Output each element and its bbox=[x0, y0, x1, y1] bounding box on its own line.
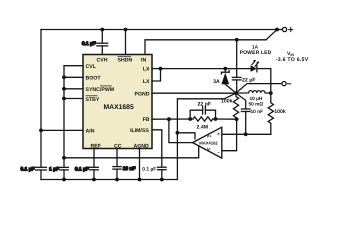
svg-text:V-: V- bbox=[207, 146, 212, 151]
wire LX line bbox=[152, 68, 251, 70]
capacitor 1uF on bus bbox=[60, 167, 69, 179]
svg-text:PGND: PGND bbox=[135, 91, 150, 97]
svg-text:+: + bbox=[217, 132, 220, 138]
label + at terminal bbox=[289, 28, 293, 32]
junction ILIM cap to rail bbox=[160, 178, 164, 182]
wire bottom ground rail bbox=[41, 179, 177, 181]
capacitor C1 0.1uF at CVH bbox=[97, 30, 108, 55]
svg-text:CVL: CVL bbox=[86, 64, 97, 70]
junction on top rail at SHDN bbox=[124, 28, 128, 32]
svg-text:0.1 µF: 0.1 µF bbox=[21, 167, 35, 173]
wire diagonal to VIN+ terminal bbox=[266, 30, 277, 40]
svg-text:22 pF: 22 pF bbox=[198, 102, 212, 108]
svg-text:SYNC/PWM: SYNC/PWM bbox=[86, 87, 115, 93]
svg-text:0.1 µF: 0.1 µF bbox=[82, 41, 96, 47]
svg-text:MAX1685: MAX1685 bbox=[104, 104, 134, 111]
junction bus to rail bbox=[62, 178, 66, 182]
wire REF pin drop bbox=[93, 149, 95, 167]
svg-text:2.4M: 2.4M bbox=[197, 124, 209, 130]
inductor L1 10uH bbox=[236, 91, 271, 94]
junction op-amp V+ tap bbox=[176, 131, 180, 135]
IC U1 MAX1685 body bbox=[83, 55, 152, 149]
svg-text:-3.6 TO 6.5V: -3.6 TO 6.5V bbox=[276, 57, 309, 63]
wire op-amp + input line bbox=[222, 133, 271, 135]
capacitor 10nF at CC bbox=[113, 167, 121, 180]
wire top rail bbox=[41, 29, 277, 31]
svg-text:1 µF: 1 µF bbox=[49, 167, 59, 173]
svg-text:REF: REF bbox=[91, 143, 101, 149]
resistor R2 2.4M bbox=[193, 117, 213, 121]
junction 2.4M right bbox=[214, 117, 218, 121]
wire ground line from node X to rail bbox=[177, 93, 236, 179]
junction AGND to rail bbox=[138, 178, 142, 182]
svg-text:50 mΩ: 50 mΩ bbox=[249, 102, 264, 108]
junction at VIN+ terminal bbox=[275, 28, 279, 32]
capacitor C3 10nF sense bbox=[236, 93, 250, 134]
svg-text:10 nF: 10 nF bbox=[123, 166, 136, 172]
junction IN rail / VIN drop bbox=[235, 38, 239, 42]
resistor R1 100k (left) bbox=[233, 93, 238, 119]
wire op-amp V- supply stub and REF line bbox=[64, 146, 199, 158]
wire VIN drop to 22uF bbox=[236, 40, 238, 77]
wire op-amp - input line bbox=[222, 119, 237, 151]
wire SHDN to top rail bbox=[125, 30, 127, 55]
svg-text:FB: FB bbox=[143, 117, 150, 123]
svg-text:IN: IN bbox=[141, 58, 146, 64]
svg-text:AGND: AGND bbox=[134, 143, 150, 149]
svg-text:SHDN: SHDN bbox=[118, 58, 133, 64]
wire op-amp V+ supply stub bbox=[177, 133, 195, 139]
svg-text:0.1 µF: 0.1 µF bbox=[142, 167, 156, 173]
LED emission arrows bbox=[252, 60, 259, 67]
svg-text:CVH: CVH bbox=[97, 58, 108, 64]
junction AIN at left loop bbox=[39, 129, 43, 133]
wire LX2 loop bbox=[152, 69, 161, 81]
diode D1 3A Schottky bbox=[221, 69, 236, 94]
junction REF bus bbox=[62, 156, 66, 160]
capacitor 0.1uF at ILIM/SS bbox=[158, 167, 167, 179]
svg-text:0.1 µF: 0.1 µF bbox=[75, 167, 89, 173]
node X ground node bbox=[234, 91, 238, 95]
terminal OUT- bbox=[282, 82, 286, 86]
svg-text:LX: LX bbox=[143, 79, 150, 85]
svg-text:MAX4162: MAX4162 bbox=[199, 140, 218, 145]
svg-text:POWER LED: POWER LED bbox=[240, 50, 272, 56]
svg-text:100k: 100k bbox=[274, 109, 286, 115]
junction REF cap to rail bbox=[92, 178, 96, 182]
wire ILIM/SS to bypass cap bbox=[152, 130, 162, 167]
capacitor 0.1uF at REF bbox=[90, 167, 99, 179]
wire FB line bbox=[152, 118, 193, 120]
junction diode at LX bbox=[223, 67, 227, 71]
terminal VIN+ bbox=[279, 29, 282, 31]
wire left pin bus CVL/BOOT/SYNC/STBY bbox=[64, 66, 83, 167]
junction 10nF bottom bbox=[244, 132, 248, 136]
label - at terminal bbox=[288, 83, 291, 85]
capacitor 0.1uF in left loop bbox=[36, 167, 47, 179]
junction CC cap to rail bbox=[115, 178, 119, 182]
junction FB to op-amp output riser bbox=[167, 117, 171, 121]
svg-text:ILIM/SS: ILIM/SS bbox=[130, 128, 149, 134]
wire op-amp output to FB bbox=[169, 119, 193, 142]
wire SYNC/PWM stub bbox=[64, 88, 83, 90]
wire left loop vertical bbox=[40, 30, 42, 167]
svg-text:LX: LX bbox=[143, 67, 150, 73]
svg-text:CC: CC bbox=[114, 143, 122, 149]
LED D2 power LED bbox=[251, 65, 257, 71]
junction inductor right bbox=[269, 91, 273, 95]
wire BOOT stub bbox=[64, 76, 83, 78]
svg-text:V+: V+ bbox=[206, 134, 212, 139]
wire IN pin up and right bbox=[145, 40, 266, 55]
svg-text:3A: 3A bbox=[213, 79, 220, 85]
svg-text:10 µH: 10 µH bbox=[250, 96, 263, 102]
svg-text:22 µF: 22 µF bbox=[242, 78, 255, 84]
wire STBY stub bbox=[64, 98, 83, 100]
wire node X to output terminal bbox=[236, 84, 282, 94]
junction on top rail at CVH bbox=[100, 28, 104, 32]
junction LX pins tie bbox=[159, 67, 163, 71]
svg-text:100k: 100k bbox=[221, 99, 233, 105]
wire AGND pin drop bbox=[139, 149, 141, 180]
wire PGND to node X bbox=[152, 92, 236, 94]
wire AIN to left loop bbox=[41, 129, 83, 131]
resistor R3 100k (right) bbox=[268, 93, 273, 134]
svg-text:10 nF: 10 nF bbox=[251, 109, 264, 115]
op-amp U2 MAX4162 bbox=[193, 127, 222, 158]
wire LED cathode drop bbox=[270, 69, 272, 94]
wire CC pin drop bbox=[116, 149, 118, 167]
junction 2.4M left bbox=[188, 117, 192, 121]
junction R1 bottom bbox=[235, 117, 239, 121]
capacitor 22uF bbox=[232, 77, 241, 93]
svg-text:AIN: AIN bbox=[86, 129, 95, 135]
svg-text:STBY: STBY bbox=[86, 97, 100, 103]
capacitor C2 22pF bbox=[190, 106, 215, 119]
svg-text:-: - bbox=[218, 150, 220, 156]
svg-text:BOOT: BOOT bbox=[86, 76, 102, 82]
